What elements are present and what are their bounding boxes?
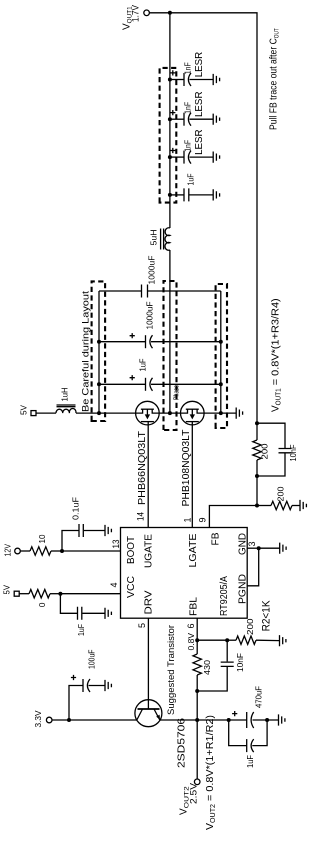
pin label BOOT [125,535,137,564]
ground (100uF) [105,680,111,691]
svg-text:10nF: 10nF [288,445,298,462]
node ground bus / Q2 source [219,411,223,415]
wire FB pin [209,506,257,528]
svg-text:200: 200 [276,486,286,501]
svg-text:R2<1K: R2<1K [261,600,273,632]
svg-text:1000uF: 1000uF [145,302,155,330]
wire rail to Q1 drain [99,412,136,414]
svg-text:10: 10 [37,534,47,543]
svg-text:470uF: 470uF [254,686,264,708]
svg-text:UGATE: UGATE [143,534,155,568]
wire FBL pin [196,618,198,640]
svg-text:DRV: DRV [143,591,155,615]
capacitor 10nF (parallel R3) [257,423,298,476]
resistor R2 200 (to gnd) [227,618,279,644]
pin number 5 [137,623,147,628]
node 3.3V junction [67,718,71,722]
capacitor C7 1uF (input, polarized) [99,359,221,391]
svg-text:430: 430 [202,660,212,675]
capacitor C5 1000uF (input, nonpolarized) [99,256,221,298]
terminal 12V [3,544,21,557]
svg-text:2.5V: 2.5V [189,782,200,804]
annotation R2<1K [261,600,273,632]
wire B to C [256,476,258,506]
wire ground bus [220,291,222,413]
svg-text:0.1uF: 0.1uF [71,497,81,520]
node phase [168,411,172,415]
node output cap B tap [168,117,172,121]
resistor R5 10 [20,534,62,555]
resistor R1 430 [193,640,212,691]
label 14 PHB66NQ03LT [136,430,148,505]
svg-text:12V: 12V [3,544,13,557]
wire Q3 emitter to VOUT2 [160,719,197,721]
dashed box input rail (layout note) [92,281,106,421]
capacitor 1uF (VCC) [60,594,105,636]
svg-text:LESR: LESR [193,51,205,77]
inductor L1 5uH [149,228,170,250]
svg-text:1: 1 [183,517,193,522]
resistor R3 200 (FB series) [253,423,270,476]
terminal 5V (VCC) [2,585,20,596]
transistor Q2 PHB108NQ03LT (low-side MOSFET) [181,401,205,425]
wire Q1 source to phase [159,412,180,414]
transistor Q1 PHB66NQ03LT (high-side MOSFET) [136,401,160,425]
pin number 14 [136,512,146,521]
svg-text:1uF: 1uF [76,624,86,636]
node output cap A tap [168,78,172,82]
wire GND pin [247,547,259,549]
svg-text:LGATE: LGATE [187,534,199,568]
terminal VOUT2 [194,720,200,785]
svg-text:5V: 5V [2,585,12,595]
node 0.8V B [195,689,199,693]
pin number 6 [186,623,196,628]
power terminal 5V (input) [19,405,37,416]
transistor Q3 2SD5706 (NPN pass) [135,700,162,727]
dashed box ground bus (layout note) [216,284,227,428]
svg-text:1uH: 1uH [60,388,70,402]
node 5V/VCC [58,592,62,596]
node 12V/BOOT [60,549,64,553]
svg-text:13: 13 [111,540,121,549]
svg-text:FB: FB [210,533,222,546]
dashed box phase rail (layout note) [164,281,177,430]
pin label PGND [237,574,249,604]
svg-text:Be Careful during Layout: Be Careful during Layout [81,291,92,412]
svg-text:RT9205/A: RT9205/A [219,576,230,616]
node FB net B [255,474,259,478]
ground (470uF) [279,714,285,725]
label VOUT2 2.5V [179,782,200,815]
ground (output cap A) [213,74,219,85]
annotation suggested transistor [166,625,176,715]
capacitor 100uF (3.3V) [69,650,105,721]
pin label GND [237,533,249,555]
svg-text:5uH: 5uH [149,230,159,246]
wire 5V input rail [98,291,100,413]
capacitor 1nF LESR (C) [170,129,213,164]
node output cap C tap [168,155,172,159]
svg-text:VCC: VCC [125,576,137,598]
wire LGATE to Q2 gate [191,422,193,528]
ground (R4) [300,500,306,511]
wire FB trace (from COUT) [170,13,257,423]
pin number 13 [111,540,121,549]
capacitor 1uF (output, D) [170,173,213,201]
ground (GND pin) [259,543,286,554]
pin label FBL [188,597,200,616]
op-amp U1 RT9205/A (PWM controller) [121,528,248,619]
svg-text:10nF: 10nF [235,653,245,672]
node VOUT1 [168,11,172,15]
svg-text:1uF: 1uF [187,173,196,185]
label 1 PHB108NQ03LT [180,429,192,507]
node C7 top [97,382,101,386]
svg-text:0.8V: 0.8V [186,633,196,651]
node 5V rail junction [97,411,101,415]
wire B to VOUT2 rail [196,691,198,720]
svg-text:100uF: 100uF [87,650,97,670]
svg-text:5V: 5V [19,405,29,415]
label 2SD5706 [177,717,188,768]
node VOUT2 junction [195,718,199,722]
node output cap D tap [168,193,172,197]
terminal VOUT1 [144,10,170,16]
ground (output cap B) [213,114,219,125]
annotation VOUT1 formula [271,298,283,412]
svg-text:1000uF: 1000uF [147,256,157,285]
node FB net C [255,504,259,508]
svg-text:1uF: 1uF [138,359,148,372]
capacitor 470uF (VOUT2) [197,686,278,728]
wire 5uH to VOUT1 [169,13,171,228]
node C6 bottom [219,340,223,344]
node 0.8V C [225,638,229,642]
svg-text:200: 200 [260,443,270,459]
wire UGATE to Q1 gate [147,422,149,528]
svg-text:PHB108NQ03LT: PHB108NQ03LT [180,429,192,507]
capacitor 1nF LESR (B) [170,91,213,126]
wire to VCC pin [60,593,120,595]
pin label LGATE [187,534,199,568]
wire Q2 source to ground bus [204,412,236,414]
svg-text:3.3V: 3.3V [33,710,43,727]
pin label FB [210,533,222,546]
pin number 4 [109,582,119,587]
svg-text:3: 3 [247,541,257,546]
svg-text:Suggested Transistor: Suggested Transistor [166,625,176,715]
svg-text:1nF: 1nF [184,140,193,152]
wire to BOOT pin [62,550,121,552]
node FB net A [255,421,259,425]
pin label UGATE [143,534,155,568]
svg-text:LESR: LESR [193,91,205,117]
label RT9205/A [219,576,230,616]
svg-text:5: 5 [137,623,147,628]
svg-text:PHB66NQ03LT: PHB66NQ03LT [136,430,148,505]
node 0.8V A [195,638,199,642]
wire PGND pin [247,548,259,586]
capacitor C6 1000uF (input, polarized) [99,302,221,349]
svg-text:BOOT: BOOT [125,535,137,564]
svg-text:0: 0 [37,602,47,607]
node 1uF loop bottom [265,718,269,722]
ground (R2) [280,635,286,646]
annotation VOUT2 formula [204,715,217,830]
svg-text:1nF: 1nF [184,102,193,114]
wire DRV to Q3 base [147,618,149,709]
svg-text:1.7V: 1.7V [131,4,142,22]
pin label DRV [143,591,155,615]
capacitor 0.1uF (BOOT) [62,497,105,551]
node 1uF loop top [227,718,231,722]
pin label VCC [125,576,137,598]
label 0.8V [186,633,196,651]
capacitor 1uF (VOUT2) [229,720,267,768]
node GND junction [257,546,261,550]
svg-text:PGND: PGND [237,574,249,604]
svg-text:9: 9 [198,517,208,522]
pin number 3 [247,541,257,546]
svg-text:1nF: 1nF [184,62,193,74]
wire 5V terminal to 1uH [36,412,56,414]
label VOUT1 1.7V [122,4,142,30]
node C6 top [97,340,101,344]
svg-text:14: 14 [136,512,146,521]
svg-text:4: 4 [109,582,119,587]
ground (1uF VCC) [105,608,111,619]
capacitor 10nF (parallel R1) [197,640,245,691]
wire phase to 5uH [169,250,171,413]
svg-text:200: 200 [245,618,255,635]
wire 1uH to 5V rail [76,412,99,414]
capacitor 1nF LESR (A) [170,51,213,86]
svg-text:2SD5706: 2SD5706 [177,717,188,768]
ground (0.1uF) [105,525,111,536]
wire 3.3V rail [52,719,137,721]
svg-text:Pull FB trace out after COUT: Pull FB trace out after COUT [268,28,281,130]
resistor R4 200 (FB to gnd) [257,486,300,509]
inductor L2 1uH [56,388,76,414]
resistor R6 0 [19,590,60,608]
svg-text:6: 6 [186,623,196,628]
terminal 3.3V [33,710,52,727]
ground (output cap C) [213,152,219,163]
svg-text:1uF: 1uF [245,755,255,768]
svg-text:FBL: FBL [188,597,200,616]
ground (Q2 source) [236,408,242,419]
pin number 1 [183,517,193,522]
label Phase [172,385,181,400]
annotation pull FB trace [268,28,281,130]
ground (output cap D) [213,189,219,200]
node C7 bottom [219,382,223,386]
svg-text:LESR: LESR [193,129,205,155]
dashed box output caps (layout note) [160,68,177,203]
annotation be careful during layout [81,291,92,412]
pin number 9 [198,517,208,522]
